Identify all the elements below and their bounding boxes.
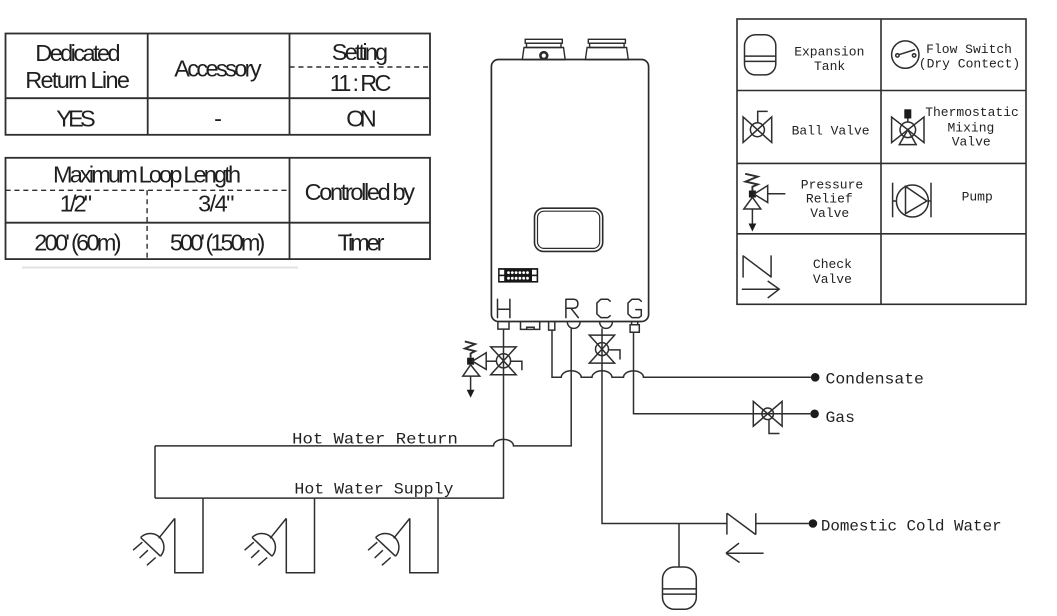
left vent cap xyxy=(525,39,562,43)
svg-text:Tank: Tank xyxy=(814,59,845,74)
port stub C xyxy=(600,322,613,329)
legend pump symbol xyxy=(893,183,931,218)
right vent base xyxy=(585,48,628,60)
svg-text:Condensate: Condensate xyxy=(826,371,924,389)
svg-text:500' (150m): 500' (150m) xyxy=(170,230,265,256)
svg-text:Dedicated: Dedicated xyxy=(35,40,120,66)
table 2 column divider xyxy=(289,158,291,259)
svg-text:Domestic Cold Water: Domestic Cold Water xyxy=(821,518,1002,536)
svg-text:Pump: Pump xyxy=(962,190,993,205)
expansion tank xyxy=(663,567,697,609)
faint scan smudge under table 2 xyxy=(22,267,298,269)
port letter C xyxy=(597,299,610,317)
svg-text:Controlled by: Controlled by xyxy=(305,179,416,205)
svg-text:Hot Water Return: Hot Water Return xyxy=(292,430,458,448)
svg-text:Valve: Valve xyxy=(952,134,991,149)
svg-text:(Dry Contect): (Dry Contect) xyxy=(919,56,1020,71)
svg-text:ON: ON xyxy=(346,106,377,132)
condensate port stub xyxy=(549,322,555,331)
table 1 dashed divider in Setting cell xyxy=(290,66,431,68)
heater rating label xyxy=(498,268,538,283)
check valve on cold water line xyxy=(726,513,764,562)
svg-text:YES: YES xyxy=(56,106,95,132)
legend pressure relief valve symbol xyxy=(744,174,786,232)
ball valve on C pipe xyxy=(589,335,620,363)
condensate terminal dot xyxy=(811,373,820,382)
svg-text:Thermostatic: Thermostatic xyxy=(925,105,1019,120)
svg-text:Return Line: Return Line xyxy=(25,67,130,93)
table 1 outer border xyxy=(6,34,431,135)
svg-text:Ball Valve: Ball Valve xyxy=(792,123,870,138)
svg-text:Relief: Relief xyxy=(806,191,853,206)
legend table border xyxy=(737,19,1026,304)
table 2 row divider xyxy=(6,222,431,224)
right vent cap xyxy=(588,39,625,43)
table 1 column divider 1 xyxy=(147,34,149,135)
svg-text:Maximum Loop Length: Maximum Loop Length xyxy=(53,162,241,188)
legend row divider 3 xyxy=(737,233,1026,235)
pipe expansion tank stem xyxy=(678,524,680,568)
cold water terminal dot xyxy=(809,519,818,528)
svg-text:11 : RC: 11 : RC xyxy=(330,70,392,96)
legend row divider 2 xyxy=(737,162,1026,164)
svg-text:200' (60m): 200' (60m) xyxy=(34,230,121,256)
port letter H xyxy=(498,299,510,317)
table 1 row divider xyxy=(6,97,431,99)
legend thermostatic mixing valve symbol xyxy=(892,109,924,144)
port stub R xyxy=(567,322,580,329)
gas terminal dot xyxy=(810,410,819,419)
left vent base xyxy=(522,48,565,60)
pipe loop left riser xyxy=(154,446,156,498)
legend column divider xyxy=(880,19,882,304)
svg-text:Valve: Valve xyxy=(810,206,849,221)
port stub G xyxy=(630,322,639,333)
ball valve on gas line xyxy=(753,401,782,433)
svg-text:Valve: Valve xyxy=(813,272,852,287)
pressure relief valve on H pipe xyxy=(463,341,497,397)
svg-text:Mixing: Mixing xyxy=(947,120,994,135)
pipe cold water from C port xyxy=(602,328,809,523)
heater display panel xyxy=(535,208,603,251)
legend row divider 1 xyxy=(737,90,1026,92)
pipe gas from G port xyxy=(634,333,811,414)
legend flow switch symbol xyxy=(892,41,919,68)
svg-text:Check: Check xyxy=(813,257,852,272)
svg-text:3/4": 3/4" xyxy=(198,191,234,217)
legend expansion tank symbol xyxy=(745,35,776,75)
svg-text:Accessory: Accessory xyxy=(174,55,262,81)
svg-text:Gas: Gas xyxy=(826,409,855,427)
unused port stub xyxy=(521,322,540,330)
table 2 dashed vertical divider xyxy=(146,190,148,259)
pipe hot water return with hop over H pipe xyxy=(155,328,571,446)
svg-text:Timer: Timer xyxy=(338,229,385,255)
port stub H xyxy=(498,322,509,330)
svg-text:Hot Water Supply: Hot Water Supply xyxy=(294,480,453,498)
table 2 outer border xyxy=(6,158,431,259)
table 2 dashed horizontal divider xyxy=(6,189,290,191)
left vent circle xyxy=(540,52,547,59)
pipe H hot out down to supply line xyxy=(155,329,504,498)
ball valve on H pipe xyxy=(491,347,522,375)
pipe condensate with hops over R C G pipes xyxy=(552,330,811,377)
shower fixture 2 xyxy=(245,498,315,573)
table 1 column divider 2 xyxy=(289,34,291,135)
legend check valve symbol xyxy=(742,255,779,298)
svg-text:Setting: Setting xyxy=(332,39,388,65)
svg-text:Flow Switch: Flow Switch xyxy=(926,42,1012,57)
water heater body xyxy=(491,60,648,322)
shower fixture 3 xyxy=(368,498,438,573)
port letter G xyxy=(628,299,641,317)
svg-text:Expansion: Expansion xyxy=(794,45,864,60)
port letter R xyxy=(566,299,578,317)
shower fixture 1 xyxy=(133,498,203,573)
legend ball valve symbol xyxy=(743,111,772,142)
svg-text:1/2": 1/2" xyxy=(60,191,92,217)
svg-text:-: - xyxy=(214,106,222,132)
